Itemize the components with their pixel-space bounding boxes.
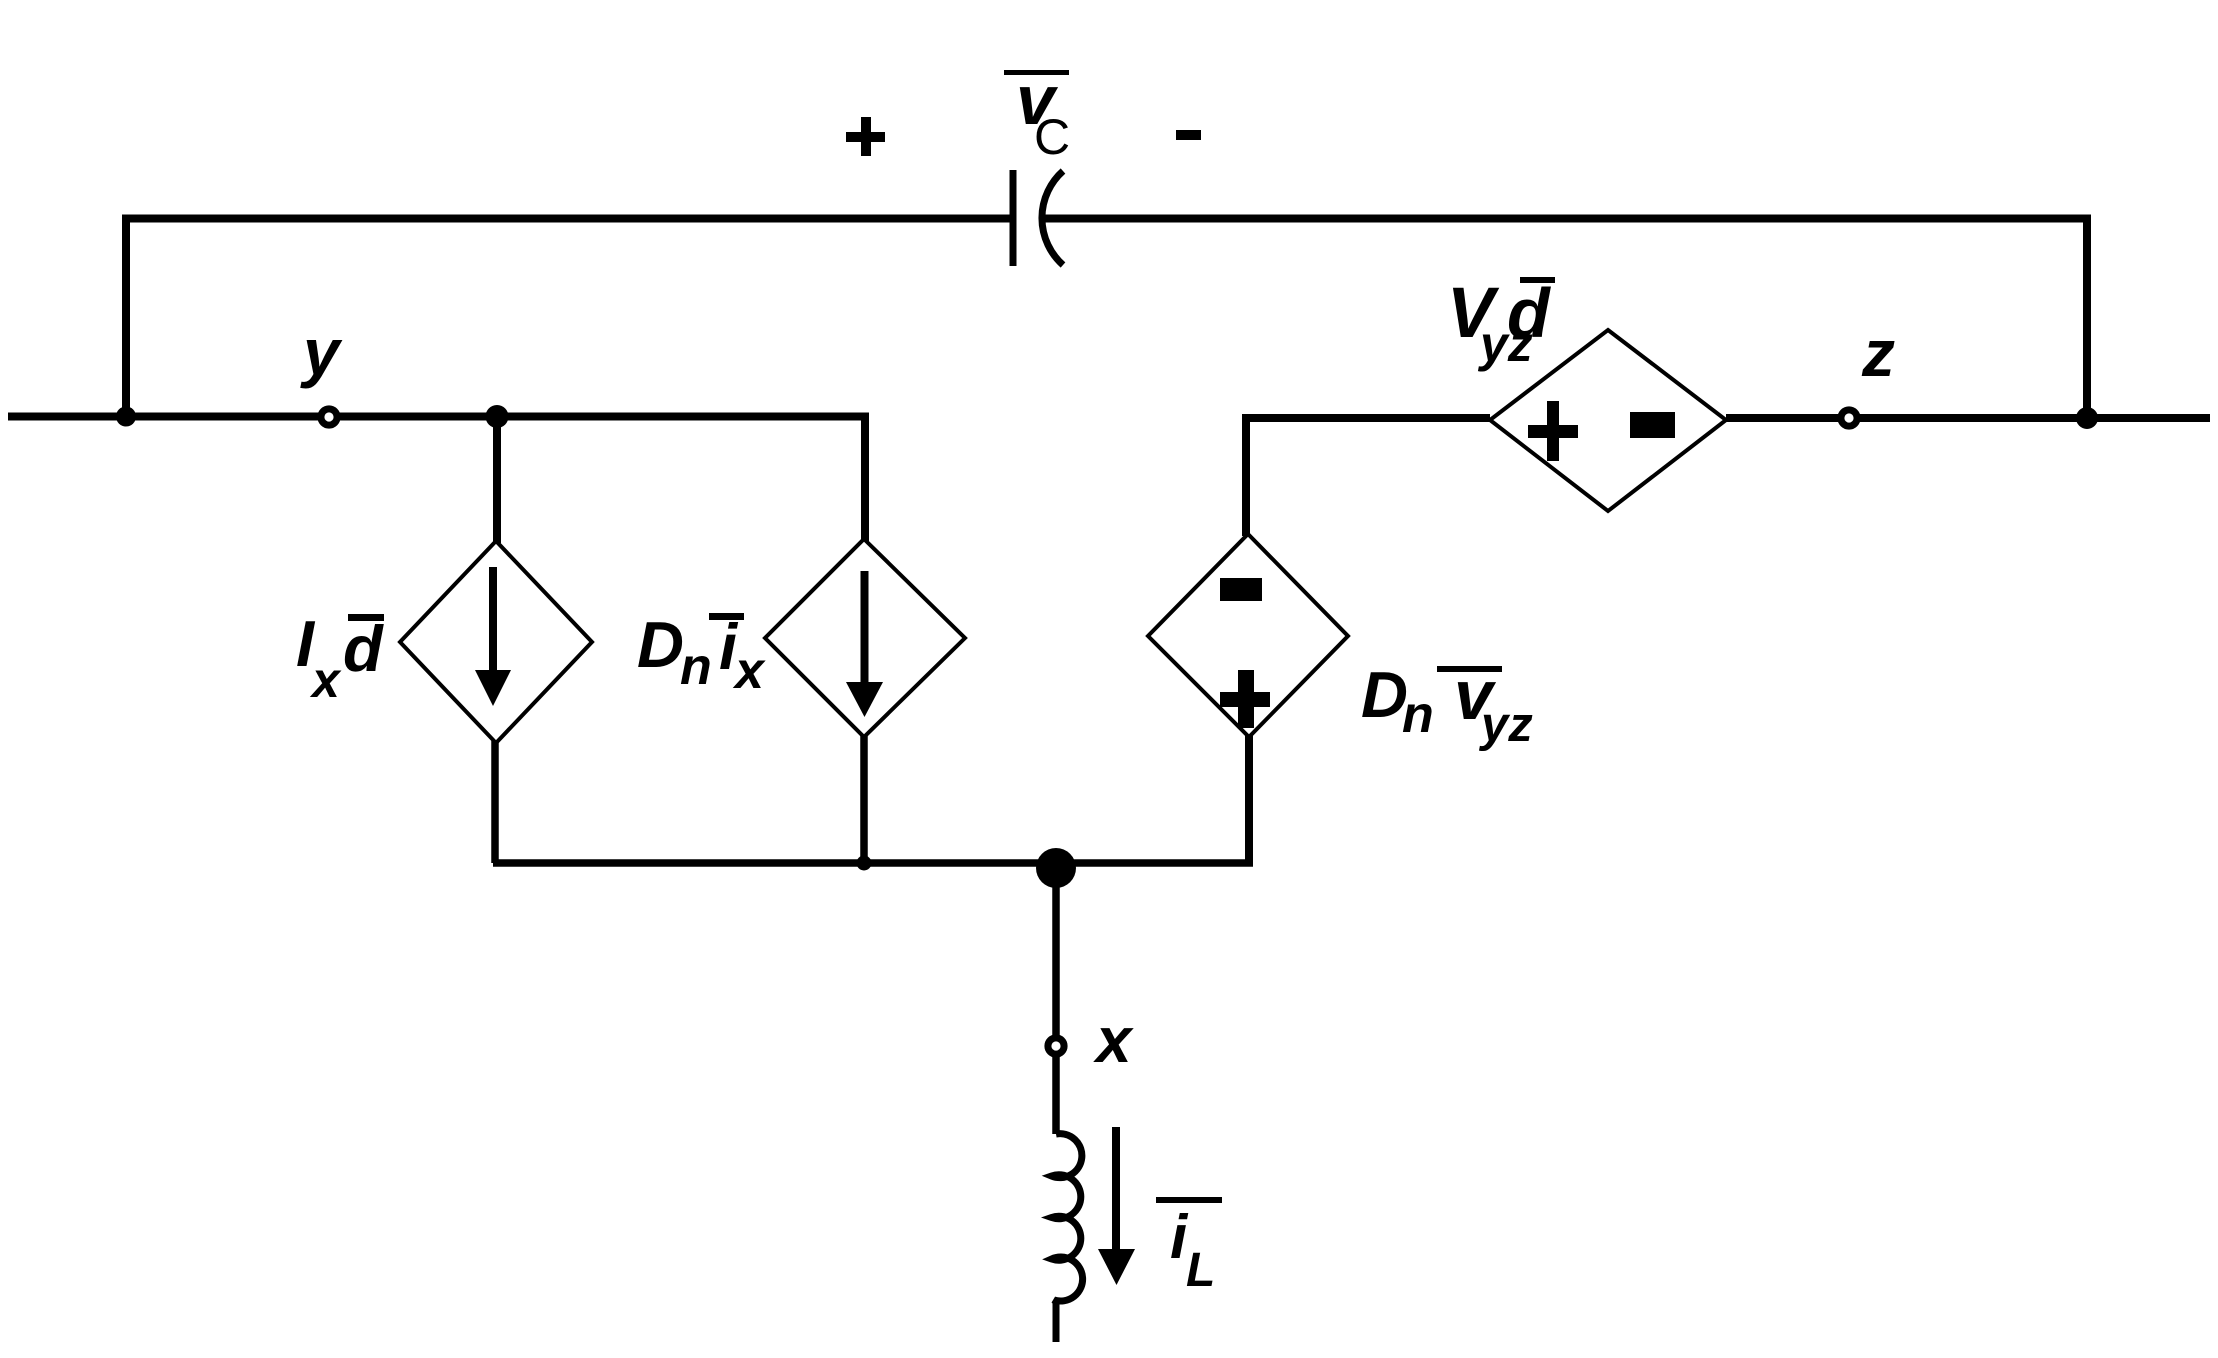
node y (open)	[321, 409, 337, 425]
label I_x dbar	[296, 607, 384, 708]
label vbar_C	[1004, 61, 1070, 165]
wire: D4 bottom to bottom rail	[1245, 735, 1253, 863]
arrow inside D2	[846, 571, 883, 717]
big junction dot node x tee	[1036, 848, 1076, 888]
wire: bottom rail	[493, 859, 1253, 867]
wire: right rail through node z to right edge	[1726, 414, 2210, 422]
plus inside D4	[1220, 670, 1270, 728]
svg-text:x: x	[309, 652, 342, 708]
node x (open)	[1048, 1038, 1064, 1054]
svg-text:d: d	[1507, 274, 1551, 352]
label V_yz dbar	[1447, 274, 1555, 372]
svg-text:x: x	[1093, 1004, 1134, 1076]
arrow inside D1	[475, 567, 511, 706]
minus inside D3	[1630, 412, 1675, 438]
junction dot at D1 stub	[486, 405, 509, 428]
svg-text:C: C	[1034, 109, 1070, 165]
label D_n ibar_x	[637, 608, 766, 700]
label D_n vbar_yz	[1361, 656, 1533, 752]
wire: D2 bottom to bottom rail	[860, 735, 868, 863]
wire: node x vertical to inductor	[1052, 863, 1060, 1134]
svg-text:L: L	[1186, 1244, 1215, 1297]
node z (open)	[1841, 410, 1857, 426]
capacitor plus sign	[846, 117, 885, 156]
inductor current arrow i_L	[1098, 1127, 1135, 1285]
wire: D1 bottom to bottom rail	[491, 741, 499, 863]
junction dot right tee	[2076, 407, 2098, 429]
current source D1 diamond	[400, 541, 592, 743]
svg-text:x: x	[732, 642, 766, 700]
svg-text:z: z	[1861, 316, 1895, 390]
svg-text:yz: yz	[1478, 698, 1533, 752]
svg-text:n: n	[680, 638, 712, 696]
label ibar_L	[1156, 1197, 1222, 1297]
minus inside D4	[1220, 578, 1262, 601]
svg-text:D: D	[637, 608, 684, 681]
svg-text:D: D	[1361, 658, 1408, 731]
svg-text:y: y	[300, 315, 343, 389]
small junction dot (D2 bottom on rail)	[857, 856, 872, 871]
voltage source D4 (D_n vbar_yz) diamond	[1148, 534, 1348, 737]
svg-text:d: d	[343, 612, 384, 685]
current source D2 diamond	[765, 539, 965, 737]
plus inside D3	[1528, 401, 1578, 461]
junction dot left (top-left corner tee)	[116, 407, 136, 427]
capacitor C: flat plate	[1010, 170, 1017, 266]
wire: main left rail through node y, corner down to current source D2	[8, 417, 865, 542]
wire: top loop left (node y side) with left vertical drop	[126, 219, 1010, 417]
capacitor C: curved plate	[1042, 171, 1063, 265]
wire: right rail from corner to V-source, corner down to D4	[1246, 418, 1490, 536]
wire: stub from rail down to current source D1	[493, 417, 501, 544]
voltage source D3 (V_yz dbar) diamond	[1490, 330, 1726, 511]
capacitor minus sign	[1176, 130, 1201, 140]
wire: top loop right with right vertical drop to z rail	[1045, 219, 2087, 419]
inductor L coil	[1052, 1134, 1083, 1342]
svg-text:n: n	[1402, 686, 1434, 744]
